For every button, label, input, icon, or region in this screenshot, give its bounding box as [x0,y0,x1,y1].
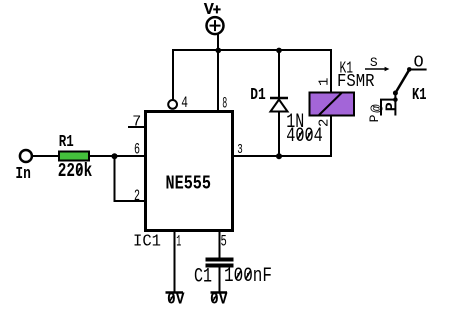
svg-text:6: 6 [134,141,140,159]
svg-text:K1: K1 [412,86,427,105]
svg-text:V: V [204,1,215,20]
svg-text:220k: 220k [58,160,92,182]
svg-text:2: 2 [134,187,140,205]
svg-text:R1: R1 [59,133,74,152]
svg-text:IC1: IC1 [133,233,161,252]
svg-text:In: In [15,165,31,184]
svg-text:7: 7 [132,114,141,131]
svg-text:@: @ [369,104,385,113]
svg-text:2: 2 [317,119,333,127]
svg-text:FSMR: FSMR [337,72,375,92]
svg-text:P: P [383,102,400,111]
svg-text:S: S [370,55,378,70]
svg-text:1: 1 [317,78,333,86]
svg-text:4004: 4004 [286,125,323,148]
svg-text:C1: C1 [194,266,212,289]
svg-text:P: P [367,114,382,122]
svg-text:8: 8 [222,95,227,113]
svg-text:3: 3 [237,142,243,158]
svg-text:1: 1 [176,232,181,250]
svg-text:4: 4 [181,94,188,112]
svg-text:D1: D1 [250,86,266,105]
svg-text:5: 5 [221,232,227,250]
svg-text:NE555: NE555 [166,173,212,195]
